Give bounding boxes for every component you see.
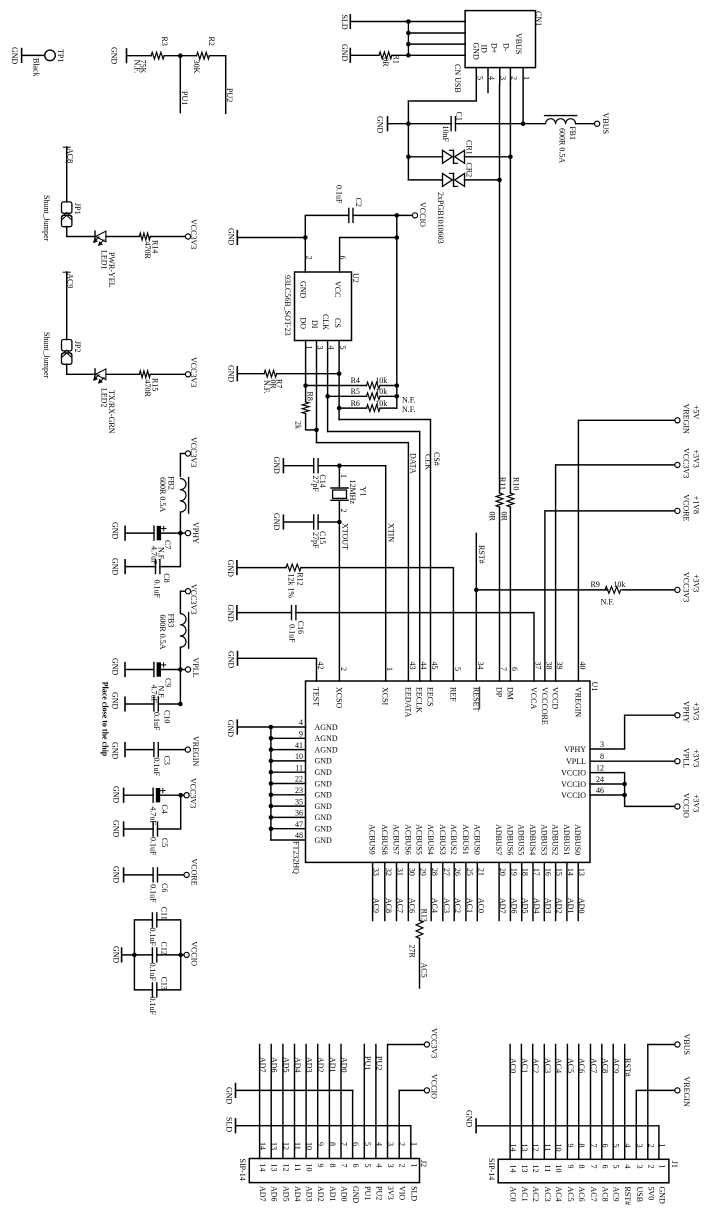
svg-text:14: 14 xyxy=(509,1165,518,1173)
pin 4 CN1 xyxy=(487,68,489,93)
pin 4 AGND U1 xyxy=(271,726,306,728)
svg-text:5: 5 xyxy=(453,667,462,671)
ground port GND (U1 left) xyxy=(236,720,238,734)
svg-text:GND: GND xyxy=(376,116,385,134)
ground port GND (C10) xyxy=(124,697,126,711)
svg-text:DI: DI xyxy=(310,320,319,329)
wire xyxy=(180,454,185,477)
svg-text:VCC3V3: VCC3V3 xyxy=(682,572,691,602)
svg-text:D-: D- xyxy=(501,43,510,52)
svg-text:2: 2 xyxy=(509,76,518,80)
svg-text:C8: C8 xyxy=(162,573,171,582)
svg-text:R6: R6 xyxy=(351,399,360,408)
LED LED2 TX/RX-GRN xyxy=(94,369,96,380)
svg-text:GND: GND xyxy=(351,1186,360,1204)
svg-text:40: 40 xyxy=(578,662,587,670)
svg-text:38: 38 xyxy=(544,662,553,670)
resistor R12 12k 1% xyxy=(286,564,301,571)
svg-text:47: 47 xyxy=(295,820,303,829)
svg-text:C5: C5 xyxy=(160,838,169,847)
svg-text:CR1: CR1 xyxy=(465,140,474,155)
svg-text:AC9: AC9 xyxy=(612,1058,621,1073)
svg-text:CS#: CS# xyxy=(432,452,441,466)
net label AC8 wire xyxy=(66,147,68,202)
svg-text:ACBUS7: ACBUS7 xyxy=(392,824,401,855)
wire xyxy=(127,55,151,57)
ground port GND (C8) xyxy=(124,560,126,574)
ferrite bead FB2 600R 0.5A xyxy=(180,479,186,513)
wire AC5 xyxy=(419,938,421,988)
svg-text:RST#: RST# xyxy=(623,1058,632,1077)
ground port GND (C9) xyxy=(124,663,126,677)
node PU1 junction xyxy=(178,53,183,58)
svg-text:VPHY: VPHY xyxy=(564,745,586,754)
ground port GND (TEST) xyxy=(237,652,239,666)
svg-text:VPHY: VPHY xyxy=(191,522,200,544)
svg-text:0.1uF: 0.1uF xyxy=(149,884,158,903)
svg-text:AGND: AGND xyxy=(315,734,338,743)
svg-text:10: 10 xyxy=(295,752,303,761)
wire R4 row xyxy=(306,385,367,387)
svg-text:RESET: RESET xyxy=(471,687,480,712)
LED LED1 PWR-YEL xyxy=(94,231,96,242)
svg-text:5: 5 xyxy=(475,76,484,80)
svg-text:AGND: AGND xyxy=(315,745,338,754)
ground port GND (J2) xyxy=(235,1084,237,1098)
wire TEST xyxy=(238,658,317,681)
wire DM lower xyxy=(509,507,511,681)
svg-text:DM: DM xyxy=(505,687,514,700)
port VPLL +3V3 xyxy=(675,759,680,764)
svg-text:0.1uF: 0.1uF xyxy=(153,580,162,599)
wire shield stubs to CN1 xyxy=(408,21,465,23)
svg-text:12: 12 xyxy=(596,764,604,773)
svg-text:AC8: AC8 xyxy=(600,1187,609,1202)
svg-text:0.1uF: 0.1uF xyxy=(148,997,157,1016)
svg-text:FB3: FB3 xyxy=(167,614,176,628)
wire J2 PU1 xyxy=(363,1045,365,1159)
svg-text:AC8: AC8 xyxy=(66,148,75,163)
crystal Y1 12MHz xyxy=(338,466,340,488)
svg-text:VIO: VIO xyxy=(398,1186,407,1200)
svg-text:AD4: AD4 xyxy=(293,1186,302,1202)
shield bus wire xyxy=(407,22,409,56)
svg-text:12MHz: 12MHz xyxy=(348,480,357,505)
svg-text:AD0: AD0 xyxy=(577,898,586,914)
port VCC3V3 (VCCD) xyxy=(675,462,680,467)
wire D- vertical (upper) xyxy=(509,85,511,494)
wire CS# route xyxy=(339,420,430,682)
svg-text:GND: GND xyxy=(299,281,308,299)
svg-text:14: 14 xyxy=(258,1164,267,1172)
svg-text:3: 3 xyxy=(600,740,604,749)
svg-text:2xPGB1010603: 2xPGB1010603 xyxy=(436,192,445,244)
wire R7 to CS xyxy=(277,373,339,375)
svg-text:AD7: AD7 xyxy=(498,898,507,914)
node VCC3V3 (C4) xyxy=(178,793,183,798)
wire xyxy=(179,647,181,669)
svg-text:SIP-14: SIP-14 xyxy=(487,1158,496,1180)
wire xyxy=(179,512,181,533)
svg-text:8: 8 xyxy=(328,1164,337,1168)
svg-text:GND: GND xyxy=(226,720,235,738)
svg-text:RST#: RST# xyxy=(623,1187,632,1206)
svg-text:GND: GND xyxy=(227,228,236,246)
svg-text:ADBUS2: ADBUS2 xyxy=(551,824,560,855)
svg-text:12: 12 xyxy=(531,1165,540,1173)
wire TVS feed vertical xyxy=(407,124,409,180)
svg-text:VCCIO: VCCIO xyxy=(561,768,586,777)
resistor R6 10k N.F. xyxy=(367,405,381,412)
svg-text:GND: GND xyxy=(112,946,121,964)
svg-text:JP1: JP1 xyxy=(73,203,82,215)
capacitor C4 4.7uF xyxy=(152,788,154,802)
wire GND to U2 pin2 xyxy=(238,237,305,239)
svg-text:46: 46 xyxy=(596,786,604,795)
resistor R5 10k N.F. xyxy=(367,393,381,400)
svg-text:AC9: AC9 xyxy=(66,273,75,288)
ground port GND (C7) xyxy=(124,526,126,540)
svg-text:ACBUS2: ACBUS2 xyxy=(449,824,458,855)
wire xyxy=(238,726,271,728)
wire xyxy=(318,521,339,523)
ground port GND (C14) xyxy=(282,459,284,473)
svg-text:ADBUS3: ADBUS3 xyxy=(539,824,548,855)
svg-text:3: 3 xyxy=(635,1165,644,1169)
wire xyxy=(161,532,181,534)
svg-text:4: 4 xyxy=(299,718,303,727)
svg-text:EEDATA: EEDATA xyxy=(403,687,412,718)
svg-text:GND: GND xyxy=(315,779,333,788)
svg-text:GND: GND xyxy=(111,522,120,540)
wire D+ vertical (upper) xyxy=(499,85,501,494)
svg-text:VPLL: VPLL xyxy=(191,658,200,678)
svg-text:10: 10 xyxy=(305,1164,314,1172)
svg-text:C4: C4 xyxy=(160,804,169,813)
port VBUS xyxy=(595,121,600,126)
svg-text:RST#: RST# xyxy=(477,545,486,564)
resistor R3 75K N.F. xyxy=(151,52,164,59)
svg-text:1: 1 xyxy=(409,1164,418,1168)
jumper JP1 Shunt_Jumper xyxy=(62,202,72,213)
wire J2 SLD xyxy=(236,1126,411,1159)
svg-text:CLK: CLK xyxy=(321,314,330,330)
svg-text:9: 9 xyxy=(566,1165,575,1169)
capacitor C15 27pF xyxy=(313,515,315,529)
capacitor C9 4.7uF N.F. xyxy=(153,663,155,677)
svg-text:AC7: AC7 xyxy=(589,1187,598,1202)
svg-text:N.F.: N.F. xyxy=(262,380,271,394)
svg-text:AD5: AD5 xyxy=(521,898,530,914)
svg-text:39: 39 xyxy=(555,662,564,670)
svg-text:AD3: AD3 xyxy=(305,1057,314,1073)
svg-text:GND: GND xyxy=(315,768,333,777)
svg-text:VCCIO: VCCIO xyxy=(682,793,691,818)
svg-text:VCCIO: VCCIO xyxy=(189,941,198,966)
svg-text:GND: GND xyxy=(10,47,19,65)
svg-text:VCCCORE: VCCCORE xyxy=(540,687,549,725)
svg-text:GND: GND xyxy=(315,791,333,800)
svg-text:AC3: AC3 xyxy=(543,1058,552,1073)
svg-text:EECS: EECS xyxy=(426,687,435,707)
resistor R11 0R xyxy=(496,493,503,507)
svg-text:N.F.: N.F. xyxy=(402,405,416,414)
svg-text:GND: GND xyxy=(226,605,235,623)
node XTOUT xyxy=(337,520,342,525)
svg-text:VCC3V3: VCC3V3 xyxy=(189,219,198,249)
port VBUS (J1) xyxy=(675,1042,680,1047)
diode CR1 (TVS) xyxy=(443,150,453,163)
svg-text:AD6: AD6 xyxy=(509,898,518,914)
port VCC3V3 (J2) xyxy=(424,1042,429,1047)
wire xyxy=(106,373,139,375)
svg-text:Shunt_Jumper: Shunt_Jumper xyxy=(42,332,51,379)
wire VCCA xyxy=(296,613,534,681)
wire xyxy=(622,589,674,591)
svg-text:2: 2 xyxy=(339,667,348,671)
svg-text:PU1: PU1 xyxy=(180,91,189,105)
svg-text:6: 6 xyxy=(510,667,519,671)
svg-text:R4: R4 xyxy=(351,376,360,385)
wire J2 VIO xyxy=(399,1090,424,1158)
svg-text:GND: GND xyxy=(472,43,481,61)
wire xyxy=(160,794,181,796)
svg-text:ACBUS9: ACBUS9 xyxy=(368,824,377,855)
svg-text:ADBUS1: ADBUS1 xyxy=(562,824,571,855)
svg-text:AC0: AC0 xyxy=(509,1187,518,1202)
svg-text:5: 5 xyxy=(363,1164,372,1168)
svg-text:GND: GND xyxy=(340,44,349,62)
svg-text:41: 41 xyxy=(295,741,303,750)
svg-text:7: 7 xyxy=(589,1165,598,1169)
capacitor C12 0.1uF xyxy=(151,948,153,962)
svg-text:AD1: AD1 xyxy=(328,1186,337,1202)
resistor R10 0R xyxy=(507,493,514,507)
svg-text:R10: R10 xyxy=(511,477,520,490)
wire DATA route xyxy=(317,443,409,681)
wire xyxy=(351,54,379,56)
svg-text:AC5: AC5 xyxy=(420,963,429,978)
capacitor C1 10nF xyxy=(450,117,452,131)
svg-text:AC3: AC3 xyxy=(543,1187,552,1202)
svg-text:REF: REF xyxy=(448,687,457,702)
svg-text:GND: GND xyxy=(315,757,333,766)
svg-text:CLK: CLK xyxy=(423,454,432,470)
wires J1 AC bus xyxy=(509,1045,511,1160)
node XTIN xyxy=(337,463,342,468)
wire CR2 row xyxy=(408,179,442,181)
svg-text:AD4: AD4 xyxy=(532,898,541,914)
junction dots shield xyxy=(406,19,411,24)
RESET overline xyxy=(479,687,481,709)
port SLD xyxy=(349,15,351,29)
wire RST# xyxy=(475,533,477,681)
svg-text:R12: R12 xyxy=(296,572,305,585)
svg-text:11: 11 xyxy=(543,1165,552,1173)
wire xyxy=(125,794,154,796)
svg-text:VCCA: VCCA xyxy=(529,687,538,709)
svg-text:36: 36 xyxy=(295,809,303,818)
wire xyxy=(238,567,287,569)
svg-text:XTOUT: XTOUT xyxy=(341,523,350,550)
ferrite bead FB1 600R 0.5A xyxy=(546,119,576,124)
svg-text:ACBUS1: ACBUS1 xyxy=(461,824,470,855)
svg-text:48: 48 xyxy=(295,831,303,840)
svg-text:AD2: AD2 xyxy=(555,898,564,914)
svg-text:AC0: AC0 xyxy=(509,1058,518,1073)
svg-text:R8: R8 xyxy=(306,392,315,401)
svg-text:7: 7 xyxy=(340,1164,349,1168)
port VPHY +3V3 xyxy=(675,713,680,718)
pin 8 VPLL wire xyxy=(590,760,675,762)
svg-text:VREGIN: VREGIN xyxy=(573,687,582,717)
svg-text:12k 1%: 12k 1% xyxy=(287,573,296,598)
svg-text:0R: 0R xyxy=(500,512,509,522)
wire VREGIN +5V xyxy=(578,420,674,681)
svg-text:9: 9 xyxy=(316,1164,325,1168)
svg-text:AD7: AD7 xyxy=(258,1186,267,1202)
svg-text:10k: 10k xyxy=(613,580,625,589)
node VPLL xyxy=(178,667,183,672)
svg-text:600R 0.5A: 600R 0.5A xyxy=(557,128,566,163)
svg-text:1: 1 xyxy=(522,76,531,80)
svg-text:SIP-14: SIP-14 xyxy=(238,1159,247,1181)
capacitor C10 0.1uF xyxy=(153,697,155,711)
port VCCIO (J2) xyxy=(424,1088,429,1093)
svg-text:C3: C3 xyxy=(162,756,171,765)
svg-text:GND: GND xyxy=(111,558,120,576)
svg-text:ADBUS7: ADBUS7 xyxy=(494,824,503,855)
port SLD (J2) xyxy=(235,1119,237,1133)
ground port GND (R3) xyxy=(126,49,128,63)
svg-text:XCSO: XCSO xyxy=(334,687,343,709)
svg-text:AC3: AC3 xyxy=(442,898,451,913)
node C11-13 right xyxy=(178,953,183,958)
svg-text:8: 8 xyxy=(577,1165,586,1169)
ground port GND (C6) xyxy=(123,868,125,882)
wire xyxy=(67,364,95,374)
wire R8 to DATA xyxy=(306,414,317,430)
svg-text:GND: GND xyxy=(110,47,119,65)
svg-text:GND: GND xyxy=(112,786,121,804)
svg-text:PU2: PU2 xyxy=(374,1186,383,1200)
svg-text:U1: U1 xyxy=(590,682,599,692)
svg-text:27R: 27R xyxy=(408,945,417,959)
svg-text:VCCIO: VCCIO xyxy=(561,791,586,800)
node VPHY xyxy=(178,531,183,536)
svg-text:VREGIN: VREGIN xyxy=(682,404,691,434)
svg-text:+3V3: +3V3 xyxy=(692,749,701,767)
svg-text:VCCIO: VCCIO xyxy=(418,202,427,227)
svg-text:EECLK: EECLK xyxy=(415,687,424,713)
pin 2 CN1 xyxy=(509,68,511,85)
svg-text:C13: C13 xyxy=(160,977,169,990)
svg-text:5: 5 xyxy=(338,346,347,350)
wire U2 pin4 CLK xyxy=(327,341,329,432)
svg-text:AD6: AD6 xyxy=(270,1057,279,1073)
svg-text:N.F.: N.F. xyxy=(601,598,615,607)
svg-text:C1: C1 xyxy=(455,112,464,121)
svg-text:10nF: 10nF xyxy=(441,126,450,143)
wire xyxy=(238,373,264,375)
svg-text:0R: 0R xyxy=(381,57,390,67)
wire DP lower xyxy=(499,507,501,681)
resistor R9 10k N.F. xyxy=(605,587,621,594)
svg-text:VCC3V3: VCC3V3 xyxy=(430,1028,439,1058)
svg-text:R13: R13 xyxy=(420,909,429,922)
wire xyxy=(160,533,181,567)
wire xyxy=(392,54,409,56)
svg-text:GND: GND xyxy=(315,836,333,845)
wire xyxy=(351,21,408,23)
svg-text:FB2: FB2 xyxy=(167,476,176,490)
svg-text:27pF: 27pF xyxy=(311,532,320,549)
port VREGIN +5V xyxy=(675,418,680,423)
svg-text:R2: R2 xyxy=(207,37,216,46)
node RST#-R9 xyxy=(474,588,479,593)
port VCC3V3 (R15) xyxy=(185,372,190,377)
wire xyxy=(164,55,196,57)
svg-text:44: 44 xyxy=(419,662,428,670)
svg-text:10k: 10k xyxy=(375,399,387,408)
port VCC3V3 (R9) xyxy=(675,587,680,592)
wire R9 row xyxy=(476,589,608,591)
svg-text:0.1uF: 0.1uF xyxy=(148,963,157,982)
node CR1 junctions xyxy=(406,155,411,160)
svg-text:Y1: Y1 xyxy=(358,487,367,497)
IC U1 FT232HQ body xyxy=(306,681,591,862)
svg-text:GND: GND xyxy=(272,457,281,475)
svg-text:J1: J1 xyxy=(670,1161,679,1168)
wire xyxy=(126,749,154,751)
wire R5 row xyxy=(328,395,367,397)
svg-text:C11: C11 xyxy=(160,907,169,920)
svg-text:XTIN: XTIN xyxy=(387,523,396,542)
ferrite bead FB3 600R 0.5A xyxy=(180,614,186,648)
port VREGIN (C3) xyxy=(185,747,190,752)
svg-text:VBUS: VBUS xyxy=(514,33,523,54)
capacitor C3 0.1uF xyxy=(153,743,155,757)
resistor R15 470R xyxy=(139,371,150,378)
svg-text:AC8: AC8 xyxy=(600,1058,609,1073)
ground port GND (U2) xyxy=(236,231,238,245)
wire xyxy=(158,874,184,876)
svg-text:AC5: AC5 xyxy=(566,1058,575,1073)
svg-text:AD0: AD0 xyxy=(340,1057,349,1073)
svg-text:AC2: AC2 xyxy=(453,898,462,913)
svg-text:45: 45 xyxy=(430,662,439,670)
svg-text:AC9: AC9 xyxy=(372,898,381,913)
svg-text:11: 11 xyxy=(295,763,303,772)
svg-text:VPLL: VPLL xyxy=(682,748,691,768)
svg-text:VREGIN: VREGIN xyxy=(191,736,200,766)
capacitor C5 0.1uF xyxy=(152,822,154,836)
wire J2 GND xyxy=(236,1089,353,1091)
ground port GND (C16) xyxy=(236,606,238,620)
svg-text:DO: DO xyxy=(299,318,308,330)
wire PU2 xyxy=(210,56,226,114)
svg-text:PU1: PU1 xyxy=(363,1186,372,1200)
port VCORE xyxy=(184,872,189,877)
svg-text:VBUS: VBUS xyxy=(601,113,610,134)
wire xyxy=(576,123,595,125)
wire xyxy=(125,874,154,876)
svg-text:LED2: LED2 xyxy=(100,388,109,408)
svg-text:R3: R3 xyxy=(160,37,169,46)
wire CR1 row xyxy=(408,156,442,158)
svg-text:0.1uF: 0.1uF xyxy=(335,185,344,204)
wire VCCIO pull-up rail xyxy=(396,215,398,408)
